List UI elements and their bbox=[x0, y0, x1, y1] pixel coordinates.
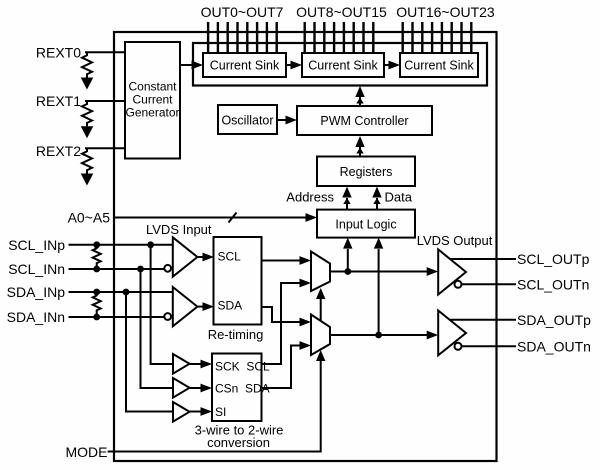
node SDA_INp/R bbox=[93, 289, 100, 296]
svg-text:LVDS Input: LVDS Input bbox=[146, 222, 212, 237]
SDA_OUTp wire bbox=[451, 319, 517, 321]
svg-text:Constant: Constant bbox=[128, 80, 177, 94]
wire SCL_INp to SCK buffer bbox=[151, 245, 173, 364]
svg-text:REXT1: REXT1 bbox=[36, 93, 81, 109]
node SCL_INn/R bbox=[93, 266, 100, 273]
svg-text:Data: Data bbox=[385, 190, 413, 205]
svg-text:Input Logic: Input Logic bbox=[335, 217, 396, 231]
node SDA feedback bbox=[375, 332, 382, 339]
SDA_OUTn wire bbox=[462, 345, 517, 347]
termination resistor SDA bbox=[93, 292, 101, 317]
SDA_INp wire bbox=[69, 291, 173, 293]
svg-text:SDA_OUTp: SDA_OUTp bbox=[517, 312, 591, 328]
SCL_INn wire bbox=[69, 268, 165, 270]
wire CSn buffer to 3-wire block bbox=[190, 384, 213, 393]
current sink U2 bbox=[302, 53, 384, 77]
MODE wire bbox=[108, 361, 321, 452]
3-wire buffer SCK bbox=[173, 354, 190, 374]
wire SCL feedback to input logic bbox=[343, 238, 352, 272]
svg-text:Current Sink: Current Sink bbox=[308, 59, 378, 73]
resistor REXT2 bbox=[82, 148, 92, 173]
wire CCG to current sink U1 bbox=[180, 61, 203, 70]
node SCL_INp tap bbox=[147, 241, 154, 248]
address bus input logic to registers bbox=[342, 187, 351, 210]
REXT0 wire bbox=[85, 51, 125, 53]
inverting bubble SCL_INn bbox=[164, 265, 171, 272]
svg-text:A0~A5: A0~A5 bbox=[68, 210, 111, 226]
wire oscillator to PWM bbox=[277, 116, 297, 125]
svg-text:Registers: Registers bbox=[340, 165, 393, 179]
inverting bubble SDA_INn bbox=[164, 313, 171, 320]
svg-text:SDA_INn: SDA_INn bbox=[7, 309, 65, 325]
wire re-timing SDA to mux2 bbox=[262, 307, 312, 326]
inverting bubble SCL_OUTn bbox=[455, 281, 462, 288]
OUT16~OUT23 pin wires bbox=[403, 22, 472, 53]
wire SI buffer to 3-wire block bbox=[190, 407, 213, 416]
wire re-timing SCL to mux1 bbox=[262, 256, 312, 265]
A0~A5 wire bbox=[114, 213, 317, 222]
svg-text:SCL_INp: SCL_INp bbox=[8, 237, 65, 253]
node SDA_INp tap bbox=[123, 289, 130, 296]
wire SDA buffer to re-timing bbox=[197, 302, 214, 311]
LVDS output buffer SCL bbox=[438, 249, 466, 294]
svg-text:SI: SI bbox=[215, 405, 226, 419]
chip outer boundary bbox=[114, 32, 497, 461]
node SCL_INn tap bbox=[137, 266, 144, 273]
svg-text:Generator: Generator bbox=[125, 106, 179, 120]
LVDS output buffer SDA bbox=[438, 311, 466, 356]
bus registers to PWM bbox=[355, 136, 364, 157]
wire SDA_INp to SI buffer bbox=[126, 292, 173, 412]
registers block bbox=[317, 157, 415, 187]
svg-text:conversion: conversion bbox=[207, 435, 270, 450]
wire mux M1 to LVDS output buffer SCL bbox=[330, 267, 438, 276]
input logic block bbox=[317, 210, 415, 238]
svg-text:SDA_OUTn: SDA_OUTn bbox=[517, 338, 591, 354]
svg-text:SDA_INp: SDA_INp bbox=[7, 284, 66, 300]
wire SCL_INn to CSn buffer bbox=[141, 269, 174, 388]
svg-text:MODE: MODE bbox=[66, 444, 108, 460]
node SDA_INn/R bbox=[93, 314, 100, 321]
svg-text:LVDS Output: LVDS Output bbox=[417, 233, 493, 248]
wire U1 to U2 bbox=[286, 61, 302, 70]
inverting bubble SDA_OUTn bbox=[455, 343, 462, 350]
data bus input logic to registers bbox=[372, 187, 381, 210]
3-wire to 2-wire block bbox=[212, 354, 262, 422]
mux M2 bbox=[311, 315, 330, 356]
svg-text:Oscillator: Oscillator bbox=[221, 114, 273, 128]
re-timing block bbox=[214, 237, 262, 325]
PWM controller block bbox=[297, 106, 432, 135]
termination resistor SCL bbox=[93, 245, 101, 269]
mux M1 bbox=[311, 252, 330, 292]
svg-text:Re-timing: Re-timing bbox=[208, 327, 264, 342]
current-sink arrow REXT1 bbox=[81, 126, 94, 138]
svg-text:REXT2: REXT2 bbox=[36, 143, 81, 159]
svg-text:SCK SCL: SCK SCL bbox=[215, 360, 270, 374]
3-wire buffer SI bbox=[173, 402, 190, 422]
svg-text:REXT0: REXT0 bbox=[36, 44, 81, 60]
svg-text:SDA: SDA bbox=[218, 299, 243, 313]
svg-text:OUT16~OUT23: OUT16~OUT23 bbox=[396, 4, 495, 20]
wire 3-wire SDA to mux2 bbox=[262, 341, 312, 388]
3-wire buffer CSn bbox=[173, 378, 190, 398]
select wire mux M2 to mux M1 bbox=[316, 288, 325, 321]
LVDS input buffer SDA bbox=[173, 287, 198, 326]
svg-text:SCL_OUTn: SCL_OUTn bbox=[517, 276, 589, 292]
SDA_INn wire bbox=[69, 316, 165, 318]
current sink U3 bbox=[400, 53, 478, 77]
SCL_OUTn wire bbox=[462, 283, 517, 285]
current-sink arrow REXT0 bbox=[81, 78, 94, 90]
resistor REXT0 bbox=[82, 52, 92, 77]
oscillator block bbox=[218, 105, 277, 134]
wire 3-wire SCL to mux1 bbox=[262, 279, 312, 364]
current-sink arrow REXT2 bbox=[81, 174, 94, 186]
svg-text:Address: Address bbox=[286, 190, 334, 205]
svg-text:SCL: SCL bbox=[218, 250, 242, 264]
wire SCK buffer to 3-wire block bbox=[190, 360, 213, 369]
svg-text:CSn SDA: CSn SDA bbox=[215, 382, 270, 396]
resistor REXT1 bbox=[82, 101, 92, 126]
wire SCL buffer to re-timing bbox=[197, 253, 214, 262]
wire mux M2 to LVDS output buffer SDA bbox=[330, 331, 438, 340]
current sink U1 bbox=[203, 53, 286, 77]
svg-text:PWM Controller: PWM Controller bbox=[320, 114, 408, 128]
svg-text:OUT8~OUT15: OUT8~OUT15 bbox=[296, 4, 387, 20]
svg-text:Current Sink: Current Sink bbox=[210, 59, 280, 73]
OUT8~OUT15 pin wires bbox=[305, 22, 374, 53]
current sink group box bbox=[193, 43, 487, 86]
svg-text:OUT0~OUT7: OUT0~OUT7 bbox=[201, 4, 284, 20]
wire SDA feedback to input logic bbox=[374, 238, 383, 335]
svg-text:Current Sink: Current Sink bbox=[404, 59, 474, 73]
REXT2 wire bbox=[85, 147, 125, 149]
bus PWM to current sinks bbox=[355, 86, 364, 106]
svg-text:SCL_INn: SCL_INn bbox=[8, 261, 65, 277]
A0~A5 bus slash bbox=[229, 213, 237, 223]
wire U2 to U3 bbox=[384, 61, 400, 70]
node SCL feedback bbox=[344, 268, 351, 275]
svg-text:Current: Current bbox=[132, 93, 173, 107]
OUT0~OUT7 pin wires bbox=[208, 22, 277, 53]
svg-text:SCL_OUTp: SCL_OUTp bbox=[517, 251, 590, 267]
node SCL_INp/R bbox=[93, 241, 100, 248]
constant current generator block bbox=[125, 42, 180, 159]
SCL_INp wire bbox=[69, 244, 173, 246]
MODE select arrow to mux M2 bbox=[316, 350, 325, 361]
REXT1 wire bbox=[85, 100, 125, 102]
LVDS input buffer SCL bbox=[173, 237, 198, 276]
SCL_OUTp wire bbox=[451, 258, 517, 260]
